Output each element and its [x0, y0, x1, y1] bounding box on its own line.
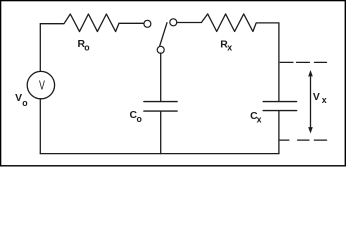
- svg-text:V: V: [313, 92, 320, 103]
- svg-text:o: o: [84, 43, 90, 53]
- svg-text:x: x: [257, 114, 262, 124]
- svg-text:o: o: [137, 114, 143, 124]
- svg-text:x: x: [322, 95, 327, 105]
- svg-text:o: o: [22, 98, 28, 108]
- svg-text:V: V: [15, 93, 22, 104]
- svg-text:x: x: [227, 42, 232, 52]
- svg-text:V: V: [39, 78, 45, 93]
